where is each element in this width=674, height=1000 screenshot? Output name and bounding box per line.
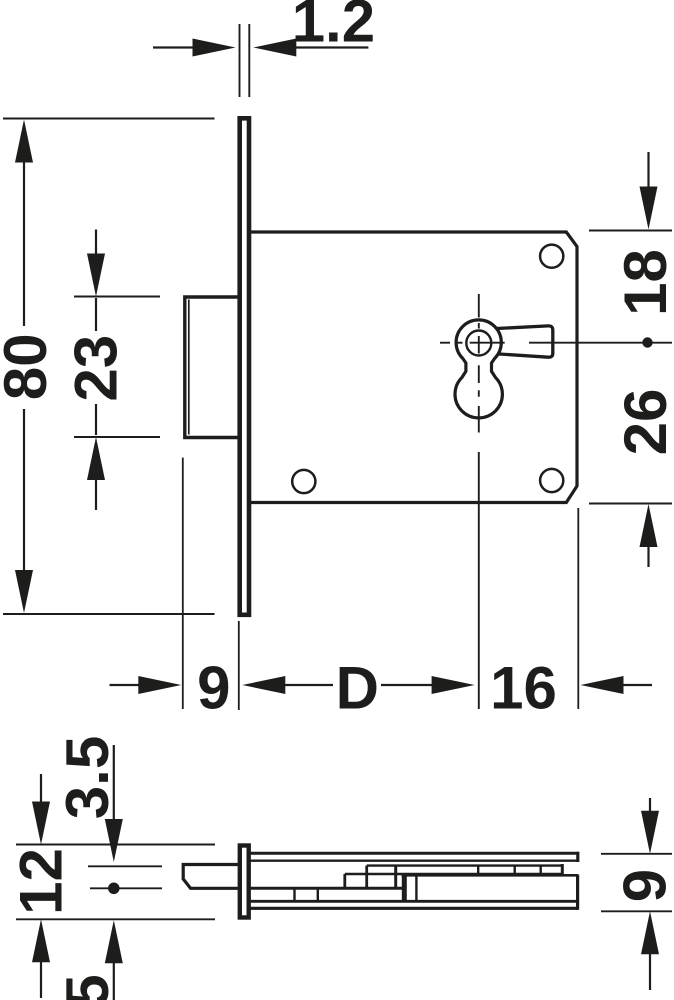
dimension 1.2 extension line right <box>248 24 250 97</box>
dimension 9 arrow <box>138 676 285 694</box>
lock case front view <box>248 232 577 503</box>
latch bolt inner edge <box>188 300 190 435</box>
side view tumbler box left edge <box>343 874 346 888</box>
svg-text:26: 26 <box>612 389 674 456</box>
dimension 9 side extension line bottom <box>601 910 672 912</box>
center height line <box>90 887 162 889</box>
side view case top outer edge <box>250 852 579 855</box>
dimension 9 shaft left <box>110 684 142 686</box>
keyhole horizontal centerline <box>440 342 672 344</box>
side view middle strip dividers <box>478 864 562 875</box>
keyhole outline <box>455 320 502 418</box>
screw hole top right <box>540 245 563 268</box>
side view tumbler box right edge <box>394 865 397 889</box>
svg-text:9: 9 <box>612 869 674 902</box>
side view faceplate <box>240 846 249 918</box>
centerline dot <box>642 337 652 347</box>
dimension 80 extension line bottom <box>3 613 215 615</box>
faceplate front view <box>240 118 249 615</box>
dimension 23 extension line bottom <box>74 436 160 438</box>
keyhole vertical centerline <box>478 294 480 709</box>
svg-text:16: 16 <box>490 655 557 722</box>
dimension 5 shaft <box>113 961 115 1000</box>
side view case top inner edge <box>250 860 579 862</box>
dimension 23 extension line top <box>74 296 160 298</box>
svg-text:23: 23 <box>62 335 129 402</box>
dimension 1.2 shaft right <box>294 46 368 48</box>
dimension 23 arrows <box>87 254 105 481</box>
dimension 9 side arrows <box>641 811 659 955</box>
svg-text:D: D <box>336 655 379 722</box>
side view bottom strip dividers <box>295 889 318 901</box>
latch top extension segment <box>88 865 162 867</box>
svg-text:80: 80 <box>0 333 59 400</box>
dimension D shaft right <box>381 684 434 686</box>
svg-text:9: 9 <box>197 655 230 722</box>
dimension 12 arrows <box>32 802 50 963</box>
dimension 12 shafts <box>40 774 42 804</box>
dimension 9 side extension line top <box>601 853 672 855</box>
side view latch bolt <box>183 865 238 889</box>
case right edge extension line <box>577 508 579 709</box>
center height dot <box>108 883 120 895</box>
dimension D shaft left <box>283 684 333 686</box>
side view right box top edge <box>402 874 579 877</box>
dimension 1.2 extension line left <box>239 24 241 97</box>
dimension 80 arrows <box>15 120 33 614</box>
dimension 26 shaft <box>647 544 649 567</box>
side view case inner bottom edge <box>250 900 577 903</box>
dimension 18 arrow <box>640 187 658 548</box>
latch edge extension line <box>182 458 184 709</box>
faceplate extension line bottom <box>238 621 240 710</box>
dimension 3.5 line <box>113 745 115 820</box>
dimension 80 line <box>23 160 25 326</box>
svg-text:12: 12 <box>8 848 75 915</box>
svg-text:1.2: 1.2 <box>292 0 375 55</box>
dimension 80 extension line top <box>3 118 215 120</box>
key shank circle <box>466 331 491 356</box>
dimension D arrow right <box>432 676 624 694</box>
key bit <box>491 326 553 357</box>
dimension 16 shaft right <box>621 684 652 686</box>
dimension 9 side shafts <box>649 798 651 813</box>
svg-text:5: 5 <box>54 974 121 1000</box>
side view: 12 extension line bottom <box>16 918 215 920</box>
dimension 3.5 arrow <box>105 819 123 862</box>
side view middle strip bottom edge <box>345 873 562 875</box>
side view case bottom outer edge <box>250 907 578 910</box>
dimension 1.2 arrow left <box>193 39 297 57</box>
dimension 18-26 extension line top <box>589 230 672 232</box>
side view middle strip top edge <box>367 864 562 866</box>
side view second vertical plate <box>415 875 417 901</box>
dimension 23 line stubs <box>95 230 97 257</box>
side view latch line inside case <box>250 887 404 890</box>
dimension 1.2 shaft left <box>153 46 195 48</box>
svg-text:3.5: 3.5 <box>54 736 121 819</box>
dimension 5 arrow <box>105 920 123 963</box>
screw hole bottom right <box>540 469 563 492</box>
side view thick vertical plate <box>402 875 407 901</box>
side view tumbler box mid edge <box>365 866 368 889</box>
dimension 18 shaft <box>647 152 649 190</box>
svg-text:18: 18 <box>612 249 674 316</box>
dimension 18-26 extension line bottom <box>589 503 672 505</box>
latch bolt front view <box>185 297 239 438</box>
screw hole bottom left <box>292 470 315 493</box>
side view top strip end cap <box>576 852 579 862</box>
side view: 12 extension line top <box>16 844 215 846</box>
side view case right edge <box>576 875 579 910</box>
